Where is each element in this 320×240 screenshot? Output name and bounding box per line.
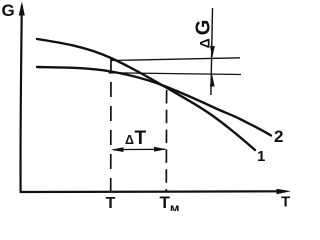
dashed vertical at T bbox=[110, 58, 112, 191]
delta-T arrowhead right bbox=[154, 147, 167, 152]
svg-text:T: T bbox=[281, 194, 290, 211]
delta-T arrowhead left bbox=[111, 147, 124, 152]
G axis arrowhead bbox=[19, 2, 25, 16]
delta-G arrowhead down (to top line) bbox=[210, 46, 215, 58]
delta-G dimension line (vertical with arrows) bbox=[211, 8, 213, 95]
G axis (vertical) bbox=[21, 6, 22, 192]
svg-text:ΔG: ΔG bbox=[193, 20, 215, 49]
svg-text:G: G bbox=[2, 1, 15, 20]
projection line of curve 1 at T (top thin horizontal) bbox=[111, 58, 240, 61]
curve 1 (steep G curve) bbox=[37, 39, 255, 150]
T axis (horizontal) bbox=[21, 190, 284, 193]
dashed vertical at Tm bbox=[165, 90, 167, 191]
delta-G arrowhead up (to second line) bbox=[210, 75, 215, 87]
T axis arrowhead bbox=[277, 189, 292, 195]
curve 2 (shallow G curve) bbox=[37, 67, 271, 136]
svg-text:T: T bbox=[106, 195, 116, 211]
svg-text:1: 1 bbox=[257, 148, 265, 165]
svg-text:2: 2 bbox=[274, 127, 283, 146]
delta-T dimension line (horizontal with arrows) bbox=[113, 148, 165, 150]
projection line of curve 2 at T (second thin horizontal) bbox=[109, 73, 242, 75]
